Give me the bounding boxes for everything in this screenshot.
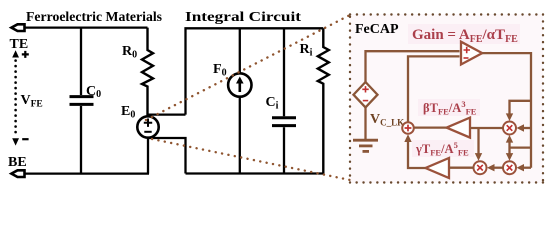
svg-text:BE: BE xyxy=(8,155,27,170)
wire beta output to summing node xyxy=(414,126,447,128)
svg-text:VFE: VFE xyxy=(21,93,43,110)
resistor R0 xyxy=(142,28,153,116)
FeCAP dotted box border xyxy=(350,13,543,15)
svg-text:FeCAP: FeCAP xyxy=(355,22,399,37)
terminal tag TE xyxy=(11,24,24,31)
wire diamond to ground xyxy=(364,107,366,139)
wire main rail into X2 right xyxy=(524,167,532,169)
FeCAP pink background tint xyxy=(350,14,543,183)
node BE polarity arrow xyxy=(12,138,19,145)
wire branch down to X3 top xyxy=(477,128,479,154)
node V_FE dotted measure line xyxy=(14,61,17,136)
wire below E0 xyxy=(147,138,149,174)
voltage source E0 xyxy=(137,116,158,137)
wire gamma output to summing node xyxy=(408,142,426,168)
multiplier X3 xyxy=(474,161,487,174)
capacitor Ci xyxy=(283,28,285,116)
wire op-amp output to right rail down xyxy=(482,53,531,168)
wire diamond top to op-amp plus input xyxy=(366,51,460,82)
wire H bar between X1 and X2 xyxy=(510,142,532,155)
wire bottom (BE rail) xyxy=(25,172,149,174)
resistor Ri on right side xyxy=(318,28,329,173)
svg-text:C0: C0 xyxy=(86,84,101,100)
summing node (+) xyxy=(402,122,414,134)
wire summing node to op-amp minus input xyxy=(408,56,460,122)
integral box left/top/bottom wires xyxy=(186,28,324,114)
wire X1 output to beta input with branch xyxy=(470,127,503,129)
controlled source V_C_LK diamond xyxy=(354,82,378,107)
arrowhead down into X2 top xyxy=(506,153,513,161)
ground xyxy=(353,139,378,142)
arrowhead into summing node bottom xyxy=(404,134,411,142)
multiplier X2 xyxy=(503,161,516,174)
node TE polarity arrow xyxy=(12,50,19,57)
wire tap to X1 right xyxy=(524,127,532,129)
svg-text:F0: F0 xyxy=(213,62,227,79)
svg-text:Ferroelectric Materials: Ferroelectric Materials xyxy=(26,10,163,25)
svg-text:R0: R0 xyxy=(122,44,137,61)
op-amp U1 xyxy=(461,42,482,65)
svg-text:Ri: Ri xyxy=(300,42,313,59)
wire tap to X1 top xyxy=(510,101,532,114)
callout dotted line lower xyxy=(152,139,350,180)
callout dotted line upper xyxy=(146,15,350,120)
amplifier gamma (triangle) xyxy=(426,158,450,178)
wire stub E0 bottom to integral box xyxy=(149,138,186,174)
arrowhead up into X1 bottom xyxy=(506,135,513,143)
svg-text:Integral Circuit: Integral Circuit xyxy=(185,10,301,25)
wire X2 output to X3 right xyxy=(494,167,503,169)
wire stub E0 top to integral box xyxy=(148,113,186,115)
svg-text:E0: E0 xyxy=(121,104,135,121)
current source F0 xyxy=(239,28,241,73)
svg-text:TE: TE xyxy=(10,37,29,52)
svg-text:Gain = AFE/αTFE: Gain = AFE/αTFE xyxy=(412,27,518,45)
svg-text:Ci: Ci xyxy=(266,95,279,112)
amplifier beta (triangle) xyxy=(447,118,471,138)
wire top (TE rail) xyxy=(25,26,148,28)
terminal tag BE xyxy=(11,170,24,177)
wire X3 output to gamma input xyxy=(449,167,474,169)
multiplier X1 xyxy=(503,122,516,135)
capacitor C0 xyxy=(80,28,82,95)
